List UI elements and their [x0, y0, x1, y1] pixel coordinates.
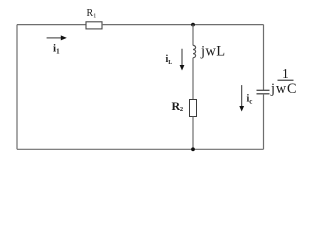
svg-text:R1: R1 [87, 8, 97, 20]
current arrow ic [239, 85, 244, 111]
svg-text:i1: i1 [53, 43, 60, 56]
right border wire upper [263, 25, 265, 91]
current arrow i1 [47, 35, 67, 40]
node junction bottom (middle branch) [191, 147, 195, 151]
fraction bar [278, 79, 294, 81]
resistor R2 [190, 100, 197, 117]
wire middle branch upper [192, 25, 194, 46]
svg-text:jwL: jwL [200, 44, 226, 60]
wire R1 to top-right corner [102, 24, 264, 26]
bottom wire [17, 148, 264, 150]
inductor jwL [193, 45, 196, 57]
capacitor 1/jwC plate bottom [257, 93, 270, 95]
svg-text:1: 1 [282, 66, 289, 81]
wire middle branch between inductor and R2 [192, 58, 194, 100]
svg-text:R2: R2 [172, 99, 184, 113]
wire middle branch lower [192, 117, 194, 150]
resistor R1 [86, 22, 102, 29]
current arrow iL [180, 49, 185, 71]
right border wire lower [263, 94, 265, 150]
svg-text:iL: iL [166, 54, 173, 66]
wire top-left to R1 [17, 24, 86, 26]
left border wire [16, 25, 18, 150]
node junction top (middle branch) [191, 23, 195, 27]
svg-text:ic: ic [247, 94, 253, 106]
svg-text:jwC: jwC [270, 81, 297, 97]
capacitor 1/jwC plate top [257, 89, 270, 91]
